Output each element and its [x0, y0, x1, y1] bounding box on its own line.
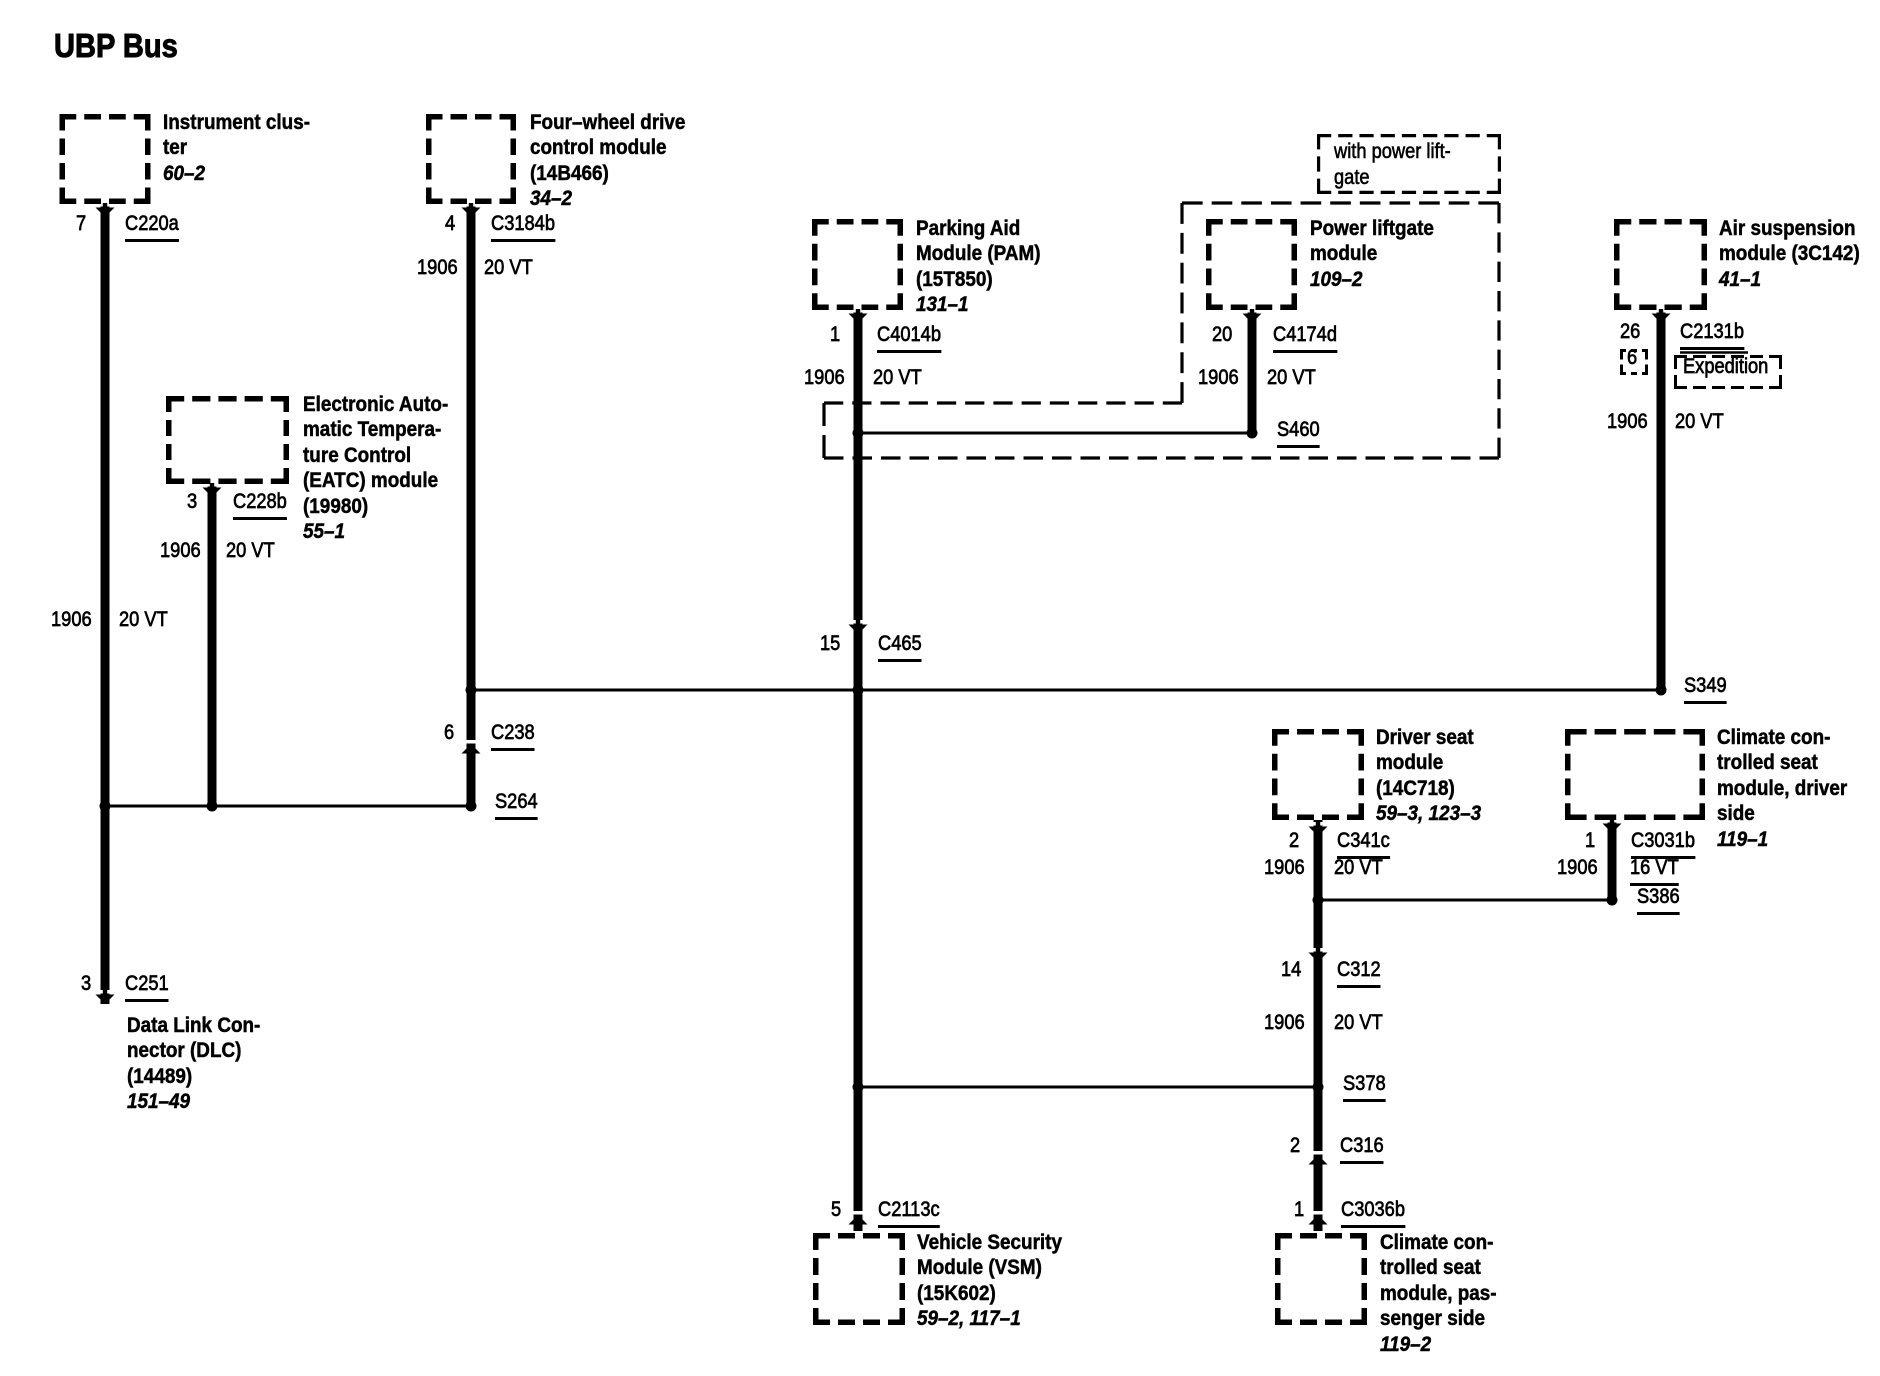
- pin 6 label box: [1620, 349, 1648, 375]
- wire power liftgate C4174d to S460: [1248, 310, 1257, 433]
- splice S460: [1277, 419, 1320, 440]
- junction on PAM wire at S378 line: [853, 1082, 864, 1093]
- arrow at C3036b above climate seat module: [1309, 1211, 1328, 1225]
- arrow at C341c below driver seat module: [1309, 822, 1328, 836]
- arrow at C228b below EATC module: [203, 483, 222, 497]
- connector C251: [125, 973, 169, 994]
- arrow at connector C312: [1309, 948, 1328, 962]
- arrow at C2131b below air suspension module: [1652, 309, 1671, 323]
- pin 14 at C312: [1281, 959, 1301, 980]
- connector C3031b: [1631, 830, 1695, 851]
- label instrument cluster: [163, 110, 310, 186]
- climate controlled seat module passenger side box: [1275, 1233, 1367, 1325]
- wire splice S386 horizontal: [1318, 899, 1612, 902]
- arrow at C251 end of DLC wire: [96, 990, 115, 1004]
- connector C465: [878, 633, 922, 654]
- pin 7 at C220a: [76, 213, 86, 234]
- parking aid module box: [812, 219, 903, 310]
- wire 20 VT at C3184b: [484, 257, 533, 278]
- junction splice S378: [1313, 1082, 1324, 1093]
- with power liftgate label box: [1317, 134, 1501, 194]
- pin 6 in box: [1627, 347, 1637, 368]
- wire 1906 at C4014b: [804, 367, 845, 388]
- four-wheel drive control module box: [426, 114, 516, 204]
- connector C2131b: [1680, 321, 1744, 342]
- junction on PAM wire at bus line: [853, 685, 864, 696]
- vehicle security module box: [813, 1233, 905, 1325]
- splice S264: [495, 791, 538, 812]
- connector C4174d: [1273, 324, 1337, 345]
- wire splice S378 horizontal: [858, 1086, 1318, 1089]
- EATC module box: [166, 396, 289, 484]
- label with power lift-gate: [1334, 139, 1451, 191]
- wire driver seat C341c bus to C3036b: [1314, 820, 1323, 1231]
- wire 1906 at C228b: [160, 540, 201, 561]
- wire 20 VT at C4014b: [873, 367, 922, 388]
- second underline of C2131b: [1680, 351, 1748, 354]
- label power liftgate module: [1310, 216, 1434, 292]
- wire 20 VT at C228b: [226, 540, 275, 561]
- label driver seat module: [1376, 725, 1481, 827]
- junction splice S460: [1247, 428, 1258, 439]
- arrow at connector C316: [1309, 1151, 1328, 1165]
- label four-wheel drive control module: [530, 110, 685, 212]
- wire 1906 at C220a: [51, 609, 92, 630]
- label data link connector: [127, 1013, 260, 1115]
- arrow at C220a below instrument cluster: [96, 203, 115, 217]
- junction on PAM wire at S460 line: [853, 428, 864, 439]
- wire 1906 at C341c: [1264, 857, 1305, 878]
- junction splice S349: [1656, 685, 1667, 696]
- label air suspension module: [1719, 216, 1860, 292]
- wire air suspension C2131b to S349: [1657, 310, 1666, 690]
- wire splice S264 horizontal: [105, 805, 471, 808]
- splice S386: [1637, 886, 1680, 907]
- pin 3 at C228b: [187, 491, 197, 512]
- pin 2 at C341c: [1289, 830, 1299, 851]
- label vehicle security module: [917, 1230, 1062, 1332]
- connector C228b: [233, 491, 287, 512]
- wire EATC C228b to S264: [208, 484, 217, 806]
- connector C3184b: [491, 213, 555, 234]
- label parking aid module: [916, 216, 1041, 318]
- wire 1906 at C312: [1264, 1012, 1305, 1033]
- connector C238: [491, 722, 535, 743]
- label EATC module: [303, 392, 448, 544]
- arrow at C4174d below power liftgate module: [1243, 309, 1262, 323]
- wire four-wheel-drive C3184b to S264: [467, 204, 476, 806]
- connector C2113c: [878, 1199, 940, 1220]
- junction on four-wheel-drive wire at bus line: [466, 685, 477, 696]
- arrow at C3031b below climate seat driver module: [1603, 819, 1622, 833]
- pin 15 at C465: [820, 633, 840, 654]
- pin 1 at C3036b: [1294, 1199, 1304, 1220]
- pin 1 at C4014b: [830, 324, 840, 345]
- junction splice S264: [466, 801, 477, 812]
- junction splice S386: [1607, 895, 1618, 906]
- arrow at C4014b below PAM: [849, 309, 868, 323]
- wire 20 VT at C220a: [119, 609, 168, 630]
- connector C4014b: [877, 324, 941, 345]
- arrow at C3184b below four-wheel drive module: [462, 203, 481, 217]
- wire 1906 at C2131b: [1607, 411, 1648, 432]
- connector C341c: [1337, 830, 1390, 851]
- pin 3 at C251: [81, 973, 91, 994]
- pin 1 at C3031b: [1585, 830, 1595, 851]
- connector C316: [1340, 1135, 1384, 1156]
- splice S349: [1684, 675, 1727, 696]
- wire splice S460 horizontal: [858, 432, 1252, 435]
- pin 26 at C2131b: [1620, 321, 1640, 342]
- wire instrument cluster C220a bus: [101, 204, 110, 1004]
- wire 1906 at C3184b: [417, 257, 458, 278]
- instrument cluster module box: [60, 114, 151, 204]
- with power liftgate option enclosure boundary: [824, 203, 1499, 458]
- connector C312: [1337, 959, 1381, 980]
- label climate controlled seat module driver side: [1717, 725, 1847, 852]
- pin 2 at C316: [1290, 1135, 1300, 1156]
- connector C3036b: [1341, 1199, 1405, 1220]
- wire 20 VT at C2131b: [1675, 411, 1724, 432]
- driver seat module box: [1272, 729, 1364, 820]
- wire 1906 at C4174d: [1198, 367, 1239, 388]
- label Expedition: [1683, 356, 1768, 377]
- junction S264 on EATC wire: [207, 801, 218, 812]
- climate controlled seat module driver side box: [1565, 729, 1705, 820]
- wire PAM C4014b bus to VSM: [854, 310, 863, 1231]
- arrow at C2113c above VSM: [849, 1211, 868, 1225]
- power liftgate module box: [1206, 219, 1297, 310]
- connector C220a: [125, 213, 179, 234]
- pin 20 at C4174d: [1212, 324, 1232, 345]
- junction S264 on DLC wire: [100, 801, 111, 812]
- arrow at connector C238: [462, 740, 481, 754]
- wire 1906 at C3031b: [1557, 857, 1598, 878]
- splice S378: [1343, 1073, 1386, 1094]
- pin 6 at C238: [444, 722, 454, 743]
- Expedition label box: [1674, 355, 1782, 389]
- wire 16 VT at C3031b: [1630, 857, 1679, 878]
- wire climate seat driver C3031b to S386: [1608, 820, 1617, 900]
- wire splice S349 horizontal: [471, 689, 1661, 692]
- label climate controlled seat module passenger side: [1380, 1230, 1497, 1357]
- wire 20 VT at C4174d: [1267, 367, 1316, 388]
- arrow at connector C465: [849, 620, 868, 634]
- title UBP Bus: [54, 27, 178, 65]
- air suspension module box: [1614, 219, 1707, 310]
- wire 20 VT at C312: [1334, 1012, 1383, 1033]
- pin 5 at C2113c: [831, 1199, 841, 1220]
- pin 4 at C3184b: [445, 213, 455, 234]
- junction on driver seat wire at S386 line: [1313, 895, 1324, 906]
- wire 20 VT at C341c: [1334, 857, 1383, 878]
